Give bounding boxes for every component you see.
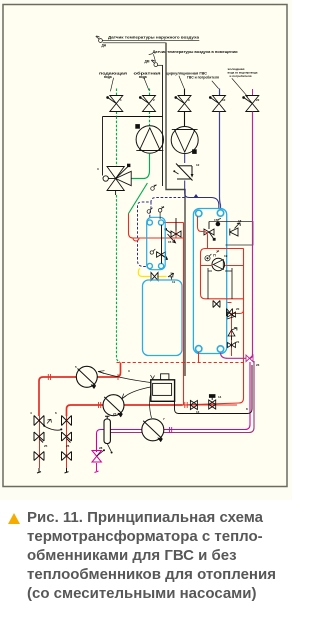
wire: red top horizontal from HE1 port [164, 222, 184, 224]
left ITP box top [103, 116, 163, 118]
pump P6 circulation [212, 258, 225, 271]
pump P2 [171, 127, 198, 154]
wire: green dashed stub valve1 [116, 89, 118, 117]
svg-text:ДН: ДН [102, 44, 107, 48]
valve magenta bottom [92, 451, 101, 463]
flow marker on navy line [194, 194, 199, 198]
wire: red pump4 line [67, 405, 183, 416]
right top valve group box [209, 222, 253, 246]
wire: red HE2 feed S [198, 216, 208, 248]
svg-text:обратная: обратная [134, 71, 161, 75]
wire: red hop dip [133, 238, 139, 241]
flange ticks p4 [99, 402, 188, 408]
sensor DN (outdoor temperature) [96, 36, 102, 42]
wire: red stub links [201, 266, 244, 303]
svg-text:12: 12 [196, 163, 200, 167]
pump P3 [76, 366, 97, 388]
valve V5 [243, 96, 259, 112]
svg-text:17: 17 [214, 218, 218, 222]
wire: red cross link with valve stem [175, 223, 177, 239]
cables from cabinet [98, 372, 152, 419]
wire: red port stub [198, 352, 200, 363]
svg-text:Датчик температуры воздуха в п: Датчик температуры воздуха в помещении [153, 50, 238, 54]
wire: red dashed bypass horizontal [117, 362, 244, 364]
wire: yellow DHW out [138, 269, 166, 277]
wire: red pump3 line [39, 363, 121, 417]
column 2 [66, 416, 68, 468]
wire: magenta stub valve5 [252, 89, 254, 96]
valve on run [190, 401, 197, 410]
svg-text:23: 23 [256, 363, 260, 367]
wire: green dashed stub valve2 [149, 89, 151, 127]
svg-text:26: 26 [66, 444, 70, 448]
valve on right riser 1 [227, 312, 236, 319]
svg-text:27: 27 [113, 412, 117, 416]
wire: magenta main riser [221, 112, 253, 359]
svg-text:15: 15 [168, 240, 172, 244]
tiny number labels [30, 98, 260, 450]
flange ticks magenta [170, 427, 172, 433]
schematic background [0, 0, 292, 500]
wire: navy P2 valve down [185, 154, 219, 209]
leader diagonals to valves [111, 76, 248, 97]
valve bottom HE2 b [227, 309, 233, 317]
wire: black stub valve3 [184, 89, 186, 127]
svg-text:19: 19 [224, 254, 228, 258]
wire: navy valve4 down to HE2 port [220, 112, 221, 210]
valve on cross link [165, 218, 181, 243]
control cabinet [151, 374, 175, 402]
svg-text:14: 14 [218, 395, 222, 399]
wire: magenta bottom stub [95, 463, 99, 473]
wire: navy stub valve4 [219, 89, 221, 96]
expansion vessel [104, 416, 111, 451]
valve bottom HE2 a [213, 301, 220, 308]
valve on yellow [151, 273, 158, 281]
wire: green dashed 3way down [117, 195, 121, 362]
sensor at P6 [205, 254, 212, 261]
sensor right top [216, 219, 221, 226]
wire: plum return line [106, 361, 254, 433]
sensor DM (room temperature) [152, 60, 158, 67]
wire: green dashed valve1 down to 3way [116, 117, 118, 167]
valve on right riser 2 [228, 343, 236, 348]
svg-text:18: 18 [238, 219, 242, 223]
svg-text:28: 28 [99, 446, 103, 450]
black bypass rect [208, 268, 232, 299]
arrow A symbol [168, 273, 174, 277]
svg-text:вода: вода [139, 75, 147, 79]
sensor on HE1 top [158, 206, 164, 219]
safety valve [228, 328, 237, 340]
wire: red right riser lower valves [232, 310, 244, 356]
jumper between columns [44, 426, 62, 430]
sensor near inner valve [150, 249, 155, 254]
valve on HE1 inner line [157, 252, 168, 260]
border frame [3, 5, 287, 487]
separator line thick [166, 43, 185, 376]
wire: navy dashed circulation [138, 198, 185, 267]
wire: red riser from green [129, 214, 184, 239]
valve magenta top [246, 355, 253, 362]
check valve right top [230, 223, 240, 236]
wire: red valve run right [183, 404, 237, 406]
svg-text:20: 20 [236, 307, 240, 311]
valve V1 [107, 96, 123, 112]
leader line top [103, 40, 200, 42]
svg-text:22: 22 [256, 98, 260, 102]
svg-text:11: 11 [172, 280, 176, 284]
svg-text:ГВС и потребителя: ГВС и потребителя [187, 76, 219, 80]
control valve right top [204, 222, 214, 239]
svg-text:25: 25 [44, 444, 48, 448]
3-way mixing valve [103, 167, 131, 191]
column 1 [39, 416, 41, 468]
left ITP box left wall [102, 117, 104, 176]
svg-text:10: 10 [222, 98, 226, 102]
flange ticks p3 [48, 374, 118, 380]
svg-text:ДМ: ДМ [145, 60, 150, 64]
pump P5 [142, 419, 164, 442]
pump P1 [136, 125, 164, 154]
wire: navy dashed top port branch [150, 202, 151, 219]
tank top fitting [170, 277, 174, 280]
valve V2 [139, 96, 155, 112]
svg-text:13: 13 [196, 410, 200, 414]
svg-text:Датчик температуры наружного в: Датчик температуры наружного воздуха [108, 35, 199, 39]
wire: red main vertical drop [183, 223, 185, 405]
valve V3 [175, 96, 191, 112]
separator line thin [162, 65, 164, 186]
control valve under P2 [176, 164, 193, 181]
svg-text:21: 21 [236, 340, 240, 344]
wire: black HE1 inner line [161, 225, 163, 264]
wire: red circulation loop [201, 249, 244, 299]
solenoid valve on run [209, 395, 216, 409]
pump P4 [103, 395, 124, 417]
valve V4 [209, 96, 225, 112]
wire: magenta circulation line [97, 362, 251, 452]
svg-text:и потребителя: и потребителя [230, 74, 252, 78]
wire: red right vertical [187, 248, 244, 404]
sensor pair left [147, 185, 156, 214]
wire: black 3way stub down [115, 191, 117, 196]
wire: green pump1 to 3way [131, 153, 149, 178]
wire: black cabinet link [175, 365, 253, 414]
svg-text:вода: вода [104, 75, 112, 79]
wire: green diagonal to red riser [129, 183, 148, 214]
signal line to separator [103, 42, 166, 44]
